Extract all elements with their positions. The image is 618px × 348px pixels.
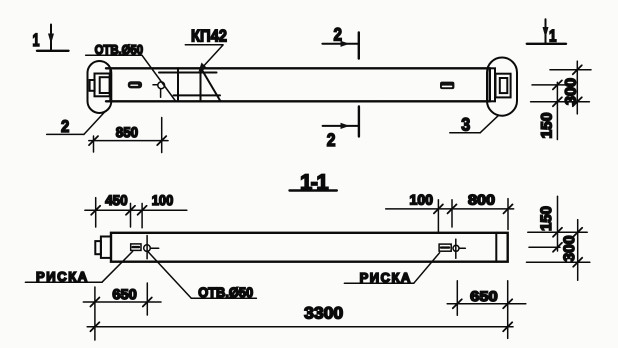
bottom view: left riska marker [131, 244, 141, 251]
top view: beam outline [106, 68, 490, 101]
bottom view: left end caps [95, 237, 111, 258]
dim line A (150) [556, 82, 558, 139]
title underline [290, 189, 337, 191]
top view right dim block: extension lines [531, 61, 591, 139]
top view: right end plate [490, 68, 495, 101]
leader OTV top [86, 55, 176, 101]
KP42 grid mesh [159, 68, 221, 101]
dimension 850 [89, 118, 168, 153]
dim line B (300) [577, 220, 579, 281]
top view: left capsule outline [88, 61, 112, 113]
svg-text:2: 2 [61, 117, 69, 136]
dimension 450/100 (top-left of bottom view) [85, 198, 187, 228]
dimension 650 left [83, 283, 161, 340]
leader KP42 with arrow [185, 45, 223, 72]
leader 3 [450, 115, 499, 133]
section mark 2 top: arrow line [322, 32, 358, 58]
svg-text:300: 300 [561, 236, 578, 262]
svg-text:100: 100 [152, 192, 174, 208]
svg-text:150: 150 [538, 206, 555, 231]
dimension 100/800 (top-right of bottom view) [386, 199, 514, 233]
svg-text:650: 650 [470, 288, 498, 304]
bottom view: beam outline [111, 233, 508, 262]
leader RISKA right [344, 253, 439, 284]
top view: left hole marker (riska) [128, 81, 142, 88]
section mark 2 bottom [323, 107, 359, 137]
leader RISKA left [25, 251, 132, 282]
svg-text:150: 150 [539, 113, 556, 139]
top view: left end socket [90, 74, 110, 97]
bottom view: right hole circle [453, 239, 465, 258]
leader 2 left [47, 112, 105, 134]
svg-text:450: 450 [105, 192, 128, 208]
svg-text:300: 300 [563, 78, 580, 105]
top view: right capsule outline [487, 58, 517, 116]
bottom view: left hole circle [144, 236, 159, 259]
section mark 1 right [527, 19, 566, 44]
ticks [553, 228, 562, 237]
top view: right hole marker [440, 82, 454, 90]
svg-text:800: 800 [468, 192, 495, 208]
ticks [553, 80, 562, 89]
svg-text:3: 3 [461, 115, 470, 135]
leader OTV bottom [148, 252, 256, 298]
svg-text:3300: 3300 [304, 305, 343, 323]
svg-text:100: 100 [410, 192, 434, 208]
bottom view: right riska marker [439, 244, 451, 251]
dim line A (150) [557, 196, 559, 251]
top view: hole circle [153, 82, 165, 97]
dimension 650 right [447, 281, 526, 339]
svg-text:850: 850 [116, 124, 139, 140]
svg-text:1: 1 [549, 27, 557, 46]
svg-text:2: 2 [327, 130, 336, 150]
dim line B (300) [576, 61, 578, 114]
svg-text:1: 1 [33, 30, 40, 50]
bottom view right dim block: extension lines [527, 196, 590, 280]
top view: right socket [496, 74, 511, 98]
svg-text:КП42: КП42 [191, 27, 227, 46]
section mark 1 left: arrow line [37, 25, 69, 51]
svg-text:650: 650 [112, 286, 137, 302]
dimension 3300 [87, 322, 513, 331]
